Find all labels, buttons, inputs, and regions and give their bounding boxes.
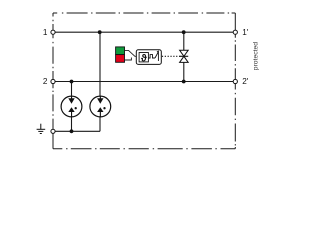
svg-text:protected: protected [253, 42, 260, 71]
svg-text:2': 2' [242, 77, 249, 86]
svg-text:1': 1' [242, 28, 249, 37]
svg-text:1: 1 [43, 28, 48, 37]
svg-text:2: 2 [43, 77, 48, 86]
